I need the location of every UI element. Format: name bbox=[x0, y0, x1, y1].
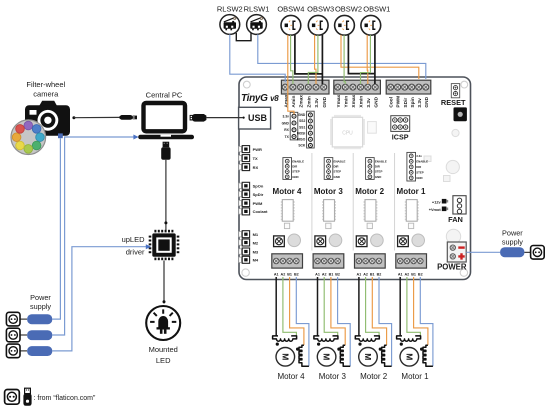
svg-text:GND: GND bbox=[292, 175, 298, 179]
resistor pack right bbox=[444, 176, 451, 182]
LED motor M3 bbox=[239, 248, 259, 255]
svg-text:Power: Power bbox=[502, 228, 523, 237]
svg-text:GND: GND bbox=[375, 175, 381, 179]
terminal block motor 3 bbox=[313, 254, 344, 268]
svg-text:camera: camera bbox=[33, 90, 59, 99]
svg-text:USB: USB bbox=[248, 113, 268, 123]
oscillator Y1 bbox=[368, 122, 377, 134]
winding B motor 4 bbox=[296, 345, 309, 366]
svg-text:A2: A2 bbox=[281, 272, 286, 276]
motor 4 bbox=[276, 348, 295, 367]
wire motor 3 A2 bbox=[324, 277, 338, 336]
winding B motor 3 bbox=[337, 345, 350, 366]
capacitor C near reset bbox=[452, 129, 459, 136]
stepper driver IC U4 bbox=[322, 200, 336, 222]
capacitor motor 1 bbox=[408, 223, 413, 228]
svg-text:FAN: FAN bbox=[448, 215, 463, 224]
wire motor 4 B1 bbox=[290, 277, 304, 345]
winding B motor 2 bbox=[379, 345, 392, 366]
svg-text:GND: GND bbox=[416, 176, 422, 180]
wire motor 2 B1 bbox=[372, 277, 386, 345]
svg-text:Motor 1: Motor 1 bbox=[397, 187, 426, 196]
svg-text:ENABLE: ENABLE bbox=[292, 159, 304, 163]
svg-text:B2: B2 bbox=[377, 272, 382, 276]
svg-text:TX: TX bbox=[253, 156, 258, 161]
camera power pad bbox=[58, 133, 63, 138]
svg-text:3.3v: 3.3v bbox=[416, 154, 422, 158]
wire OBSW2 orange to J3 3.3v bbox=[341, 35, 419, 79]
wire motor 2 A1 bbox=[358, 277, 360, 336]
stepper driver IC U5 bbox=[281, 200, 295, 222]
wire motor 1 A2 bbox=[407, 277, 421, 336]
svg-text:Coolant: Coolant bbox=[253, 209, 269, 214]
wire OBSW3 orange to J1 3.3v bbox=[315, 35, 316, 84]
stepper driver IC U2 bbox=[405, 200, 419, 222]
motor 1 control header bbox=[407, 152, 416, 181]
power supply PS2 bbox=[6, 328, 52, 342]
svg-text:M2: M2 bbox=[253, 240, 259, 245]
section separator 2 bbox=[352, 153, 354, 251]
label Motor 4 section bbox=[273, 187, 302, 196]
board mounting hole bottom-right bbox=[460, 269, 467, 276]
svg-text:SpOn: SpOn bbox=[253, 184, 264, 189]
svg-text:ICSP: ICSP bbox=[392, 133, 409, 142]
stepper driver IC U3 bbox=[364, 200, 378, 222]
SPI header J7 bbox=[307, 111, 315, 148]
trimpot motor 4 bbox=[274, 236, 285, 247]
svg-text:Filter-wheel: Filter-wheel bbox=[26, 80, 65, 89]
svg-text:GND: GND bbox=[373, 96, 379, 107]
svg-text:ENABLE: ENABLE bbox=[416, 160, 428, 164]
resistor pack near fan bbox=[424, 156, 431, 162]
UART header J6 bbox=[290, 112, 298, 140]
motor 2 control header bbox=[366, 158, 375, 180]
reset header J4 bbox=[451, 84, 459, 98]
wire RLSW2 to Amax bbox=[230, 34, 285, 82]
svg-text:CPU: CPU bbox=[342, 131, 353, 137]
svg-text:Central PC: Central PC bbox=[146, 91, 183, 100]
wire motor 3 B2 bbox=[338, 277, 351, 366]
svg-text:supply: supply bbox=[30, 302, 51, 311]
wire PS1 to camera bbox=[52, 138, 60, 319]
svg-text:TinyG v8: TinyG v8 bbox=[241, 93, 279, 104]
reset button SW1 bbox=[454, 107, 467, 121]
board TinyG v8 outline bbox=[239, 77, 471, 280]
LED spindle Coolant bbox=[239, 208, 268, 215]
label ICSP bbox=[392, 133, 409, 142]
svg-text:SS1: SS1 bbox=[299, 125, 305, 129]
pin labels J2 X/Y limits bbox=[336, 94, 380, 107]
wire OBSW1 black to J2 GND bbox=[374, 35, 376, 84]
svg-text:3.3v: 3.3v bbox=[366, 98, 372, 108]
wire motor 3 A1 bbox=[317, 277, 319, 336]
wire motor 1 B2 bbox=[420, 277, 433, 366]
wire PS2 to laptop bbox=[52, 135, 138, 336]
svg-text:Ymin: Ymin bbox=[343, 96, 349, 108]
wire laptop to upLED driver bbox=[164, 160, 167, 230]
svg-text:SDir: SDir bbox=[403, 98, 409, 108]
svg-text:RLSW1: RLSW1 bbox=[244, 5, 270, 14]
wire motor 4 B2 bbox=[296, 277, 309, 366]
svg-text:OBSW2: OBSW2 bbox=[335, 5, 362, 14]
optical switch OBSW2 bbox=[335, 5, 362, 35]
motor 3 control header bbox=[324, 158, 333, 180]
svg-text:A1: A1 bbox=[274, 272, 279, 276]
svg-text:+Vmot: +Vmot bbox=[429, 207, 442, 212]
svg-text:A1: A1 bbox=[398, 272, 403, 276]
pin labels J1 A/Z limits bbox=[283, 94, 328, 107]
wire motor 2 A2 bbox=[366, 277, 380, 336]
LED spindle SpOn bbox=[239, 182, 264, 189]
svg-text:upLED: upLED bbox=[122, 235, 146, 244]
svg-text:A1: A1 bbox=[315, 272, 320, 276]
svg-text:: from “flaticon.com”: : from “flaticon.com” bbox=[34, 395, 97, 402]
svg-text:Mounted: Mounted bbox=[149, 345, 178, 354]
svg-text:+12v: +12v bbox=[432, 199, 442, 204]
svg-text:Cool: Cool bbox=[389, 97, 395, 108]
power supply PS3 bbox=[6, 344, 52, 358]
terminal block motor 2 bbox=[355, 254, 386, 268]
svg-text:GND: GND bbox=[334, 175, 340, 179]
label Power supply right bbox=[502, 228, 523, 246]
terminal block motor 1 bbox=[396, 254, 427, 268]
svg-text:Motor 4: Motor 4 bbox=[273, 187, 302, 196]
svg-text:GND: GND bbox=[282, 121, 290, 125]
USB cable connector under laptop bbox=[161, 142, 170, 160]
svg-text:Ymax: Ymax bbox=[336, 94, 342, 107]
winding B motor 1 bbox=[420, 345, 433, 366]
svg-text:supply: supply bbox=[502, 238, 523, 247]
svg-text:Power: Power bbox=[30, 293, 51, 302]
limit switch RLSW2 bbox=[217, 5, 243, 35]
svg-text:MISO: MISO bbox=[297, 138, 306, 142]
winding A motor 3 bbox=[314, 336, 338, 346]
wire PS3 to upLED driver bbox=[52, 244, 151, 351]
svg-text:SCK: SCK bbox=[298, 144, 306, 148]
svg-text:POWER: POWER bbox=[437, 263, 467, 272]
svg-text:3.3v: 3.3v bbox=[282, 115, 289, 119]
motor 3 header pin labels bbox=[334, 159, 346, 179]
svg-text:Motor 1: Motor 1 bbox=[401, 372, 429, 381]
terminal labels A1 A2 B1 B2 motor 2 bbox=[357, 272, 382, 276]
wire OBSW1 green to Xmin bbox=[361, 35, 371, 84]
label Motor 3 bbox=[319, 372, 347, 381]
svg-text:A2: A2 bbox=[405, 272, 410, 276]
wire motor 1 A1 bbox=[399, 277, 401, 336]
label Motor 1 section bbox=[397, 187, 426, 196]
svg-text:Zmin: Zmin bbox=[306, 96, 312, 108]
upLED driver chip bbox=[149, 230, 180, 260]
svg-text:M3: M3 bbox=[253, 249, 259, 254]
svg-text:ENABLE: ENABLE bbox=[334, 159, 346, 163]
svg-text:3.3v: 3.3v bbox=[314, 98, 320, 108]
wire upLED driver to LED bbox=[163, 261, 166, 304]
label Motor 2 bbox=[360, 372, 388, 381]
svg-text:B2: B2 bbox=[335, 272, 340, 276]
wire PC to board USB bbox=[206, 117, 243, 119]
LED motor M4 bbox=[239, 256, 259, 263]
capacitor motor 2 bbox=[367, 223, 372, 228]
wire motor 4 A2 bbox=[283, 277, 297, 336]
svg-text:Motor 3: Motor 3 bbox=[319, 372, 347, 381]
svg-text:RX: RX bbox=[253, 165, 259, 170]
CPU U1 bbox=[330, 115, 365, 149]
svg-text:M4: M4 bbox=[253, 258, 259, 263]
winding A motor 1 bbox=[397, 336, 421, 346]
capacitor bulk motor 4 bbox=[288, 234, 301, 247]
svg-text:Xmin: Xmin bbox=[359, 96, 365, 108]
ICSP header J5 bbox=[391, 116, 410, 132]
terminal labels A1 A2 B1 B2 motor 1 bbox=[398, 272, 423, 276]
svg-text:B1: B1 bbox=[329, 272, 334, 276]
USB plug B to board bbox=[190, 114, 207, 122]
label Motor 1 bbox=[401, 372, 429, 381]
svg-text:SpDir: SpDir bbox=[253, 192, 264, 197]
label FAN bbox=[448, 215, 463, 224]
svg-text:Amax: Amax bbox=[283, 94, 289, 107]
svg-text:LED: LED bbox=[156, 356, 171, 365]
capacitor bulk motor 2 bbox=[371, 234, 384, 247]
svg-text:RLSW2: RLSW2 bbox=[217, 5, 243, 14]
svg-text:MOSI: MOSI bbox=[297, 131, 306, 135]
svg-text:B1: B1 bbox=[370, 272, 375, 276]
svg-text:B1: B1 bbox=[411, 272, 416, 276]
optical switch OBSW4 bbox=[277, 5, 304, 35]
label Mounted LED bbox=[149, 345, 178, 365]
motor 1 header pin labels bbox=[416, 154, 428, 180]
motor 1 bbox=[400, 348, 419, 367]
USB port on board bbox=[239, 107, 271, 129]
svg-text:A2: A2 bbox=[322, 272, 327, 276]
capacitor C above power bbox=[446, 229, 460, 243]
svg-text:OBSW1: OBSW1 bbox=[363, 5, 390, 14]
terminal block motor 4 bbox=[272, 254, 303, 268]
label Motor 4 bbox=[277, 372, 305, 381]
svg-text:RESET: RESET bbox=[441, 98, 466, 107]
svg-text:STEP: STEP bbox=[292, 170, 300, 174]
wire camera to USB plug bbox=[72, 116, 119, 119]
svg-text:OBSW4: OBSW4 bbox=[277, 5, 304, 14]
camera body bbox=[25, 101, 70, 136]
wire POWER to PS4 bbox=[466, 251, 500, 253]
svg-text:B1: B1 bbox=[287, 272, 292, 276]
svg-text:M: M bbox=[404, 353, 414, 360]
trimpot motor 2 bbox=[356, 236, 367, 247]
wire OBSW4 orange to UART 3.3v bbox=[288, 35, 294, 114]
svg-text:PWM: PWM bbox=[253, 201, 263, 206]
pin labels J3 spindle bbox=[389, 96, 430, 108]
power supply PS1 bbox=[6, 312, 52, 326]
svg-text:PWR: PWR bbox=[253, 147, 262, 152]
svg-text:GND: GND bbox=[298, 113, 306, 117]
terminal block J3 spindle bbox=[386, 80, 431, 94]
capacitor C right upper bbox=[446, 160, 459, 173]
board silkscreen logo TinyG v8 bbox=[241, 93, 279, 104]
laptop Central PC bbox=[138, 103, 194, 139]
wire OBSW3 green to Zmin bbox=[308, 35, 318, 84]
label RESET bbox=[441, 98, 466, 107]
svg-text:M: M bbox=[363, 353, 373, 360]
capacitor bulk motor 3 bbox=[329, 234, 342, 247]
optical switch OBSW1 bbox=[361, 5, 390, 35]
trimpot motor 1 bbox=[398, 236, 409, 247]
motor 4 header pin labels bbox=[292, 159, 304, 179]
motor 4 control header bbox=[283, 158, 292, 180]
terminal labels A1 A2 B1 B2 motor 3 bbox=[315, 272, 340, 276]
svg-text:Zmax: Zmax bbox=[299, 95, 305, 108]
board mounting hole bottom-left bbox=[242, 269, 249, 276]
label Motor 2 section bbox=[355, 187, 384, 196]
wire motor 2 B2 bbox=[379, 277, 392, 366]
winding A motor 2 bbox=[355, 336, 379, 346]
label Filter-wheel camera bbox=[26, 80, 65, 98]
label Central PC bbox=[146, 91, 183, 100]
svg-text:A1: A1 bbox=[357, 272, 362, 276]
limit switch RLSW1 bbox=[244, 5, 270, 35]
svg-text:Xmax: Xmax bbox=[351, 94, 357, 107]
svg-text:OBSW3: OBSW3 bbox=[307, 5, 334, 14]
svg-text:ENABLE: ENABLE bbox=[375, 159, 387, 163]
LED spindle SpDir bbox=[239, 191, 264, 198]
label Power supply left bbox=[30, 293, 51, 311]
trimpot motor 3 bbox=[315, 236, 326, 247]
motor 3 bbox=[317, 348, 336, 367]
pin +12v bbox=[432, 199, 448, 204]
svg-text:Motor 3: Motor 3 bbox=[314, 187, 343, 196]
wire OBSW2 green to Ymin bbox=[344, 35, 345, 84]
svg-text:Motor 2: Motor 2 bbox=[355, 187, 384, 196]
capacitor motor 4 bbox=[284, 223, 289, 228]
section separator 3 bbox=[394, 153, 396, 251]
LED spindle PWM bbox=[239, 200, 263, 207]
LED motor M1 bbox=[239, 231, 259, 238]
LED motor M2 bbox=[239, 239, 259, 246]
capacitor bulk motor 1 bbox=[412, 234, 425, 247]
svg-text:M1: M1 bbox=[253, 232, 259, 237]
label POWER bbox=[437, 263, 467, 272]
power supply PS4 bbox=[500, 246, 544, 260]
svg-text:GND: GND bbox=[322, 96, 328, 107]
optical switch OBSW3 bbox=[307, 5, 334, 35]
svg-text:B2: B2 bbox=[294, 272, 299, 276]
svg-text:RX: RX bbox=[284, 128, 289, 132]
svg-text:STEP: STEP bbox=[416, 171, 424, 175]
LED status RX bbox=[239, 164, 259, 171]
wire motor 3 B1 bbox=[331, 277, 345, 345]
board mounting hole top-right bbox=[461, 81, 468, 88]
wire OBSW4 green to Amin bbox=[291, 35, 293, 84]
wire OBSW1 orange to J2 3.3v bbox=[366, 35, 369, 84]
svg-text:GND: GND bbox=[424, 96, 430, 107]
svg-text:PWM: PWM bbox=[396, 96, 402, 108]
footer usb stick icon bbox=[23, 388, 31, 406]
svg-text:A2: A2 bbox=[363, 272, 368, 276]
svg-text:B2: B2 bbox=[418, 272, 423, 276]
SPI pin labels bbox=[297, 113, 306, 148]
USB plug A camera cable bbox=[120, 115, 137, 120]
terminal block J2 X/Y limits bbox=[334, 80, 381, 94]
capacitor motor 3 bbox=[326, 223, 331, 228]
wire motor 1 B1 bbox=[414, 277, 428, 345]
winding A motor 4 bbox=[273, 336, 297, 346]
LED status TX bbox=[239, 155, 258, 162]
svg-text:Motor 2: Motor 2 bbox=[360, 372, 388, 381]
svg-text:driver: driver bbox=[126, 248, 145, 257]
wire motor 4 A1 bbox=[275, 277, 277, 336]
label Motor 3 section bbox=[314, 187, 343, 196]
board mounting hole top-left bbox=[243, 81, 250, 88]
footer credit text bbox=[34, 395, 97, 402]
POWER terminal J9 bbox=[447, 242, 466, 262]
terminal block J1 A/Z limits bbox=[281, 80, 329, 94]
svg-text:Amin: Amin bbox=[291, 96, 297, 108]
svg-text:M: M bbox=[280, 353, 290, 360]
svg-text:Motor 4: Motor 4 bbox=[277, 372, 305, 381]
wire OBSW2 black to GND bus bbox=[348, 35, 375, 74]
svg-text:M: M bbox=[322, 353, 332, 360]
svg-text:SS2: SS2 bbox=[299, 119, 305, 123]
wire RLSW2-RLSW1 series link bbox=[236, 33, 251, 41]
UART pin labels bbox=[282, 115, 290, 139]
pin +Vmot bbox=[429, 207, 449, 212]
terminal labels A1 A2 B1 B2 motor 4 bbox=[274, 272, 299, 276]
footer plug icon bbox=[5, 390, 20, 405]
svg-text:3.3v: 3.3v bbox=[417, 98, 423, 108]
motor 2 bbox=[359, 348, 378, 367]
LED status PWR bbox=[239, 146, 262, 153]
filter wheel bbox=[11, 120, 46, 155]
svg-text:STEP: STEP bbox=[334, 170, 342, 174]
svg-text:Spin: Spin bbox=[410, 97, 416, 107]
wire RLSW1 to J3 GND bbox=[258, 34, 426, 79]
label upLED driver bbox=[122, 235, 146, 257]
svg-text:STEP: STEP bbox=[375, 170, 383, 174]
motor 2 header pin labels bbox=[375, 159, 387, 179]
section separator 1 bbox=[311, 153, 313, 251]
wire OBSW3 black to J1 GND bbox=[321, 35, 323, 84]
mounted LED D1 bbox=[146, 306, 180, 340]
wire OBSW4 black to GND bus bbox=[295, 35, 323, 74]
FAN connector J8 bbox=[453, 196, 466, 214]
